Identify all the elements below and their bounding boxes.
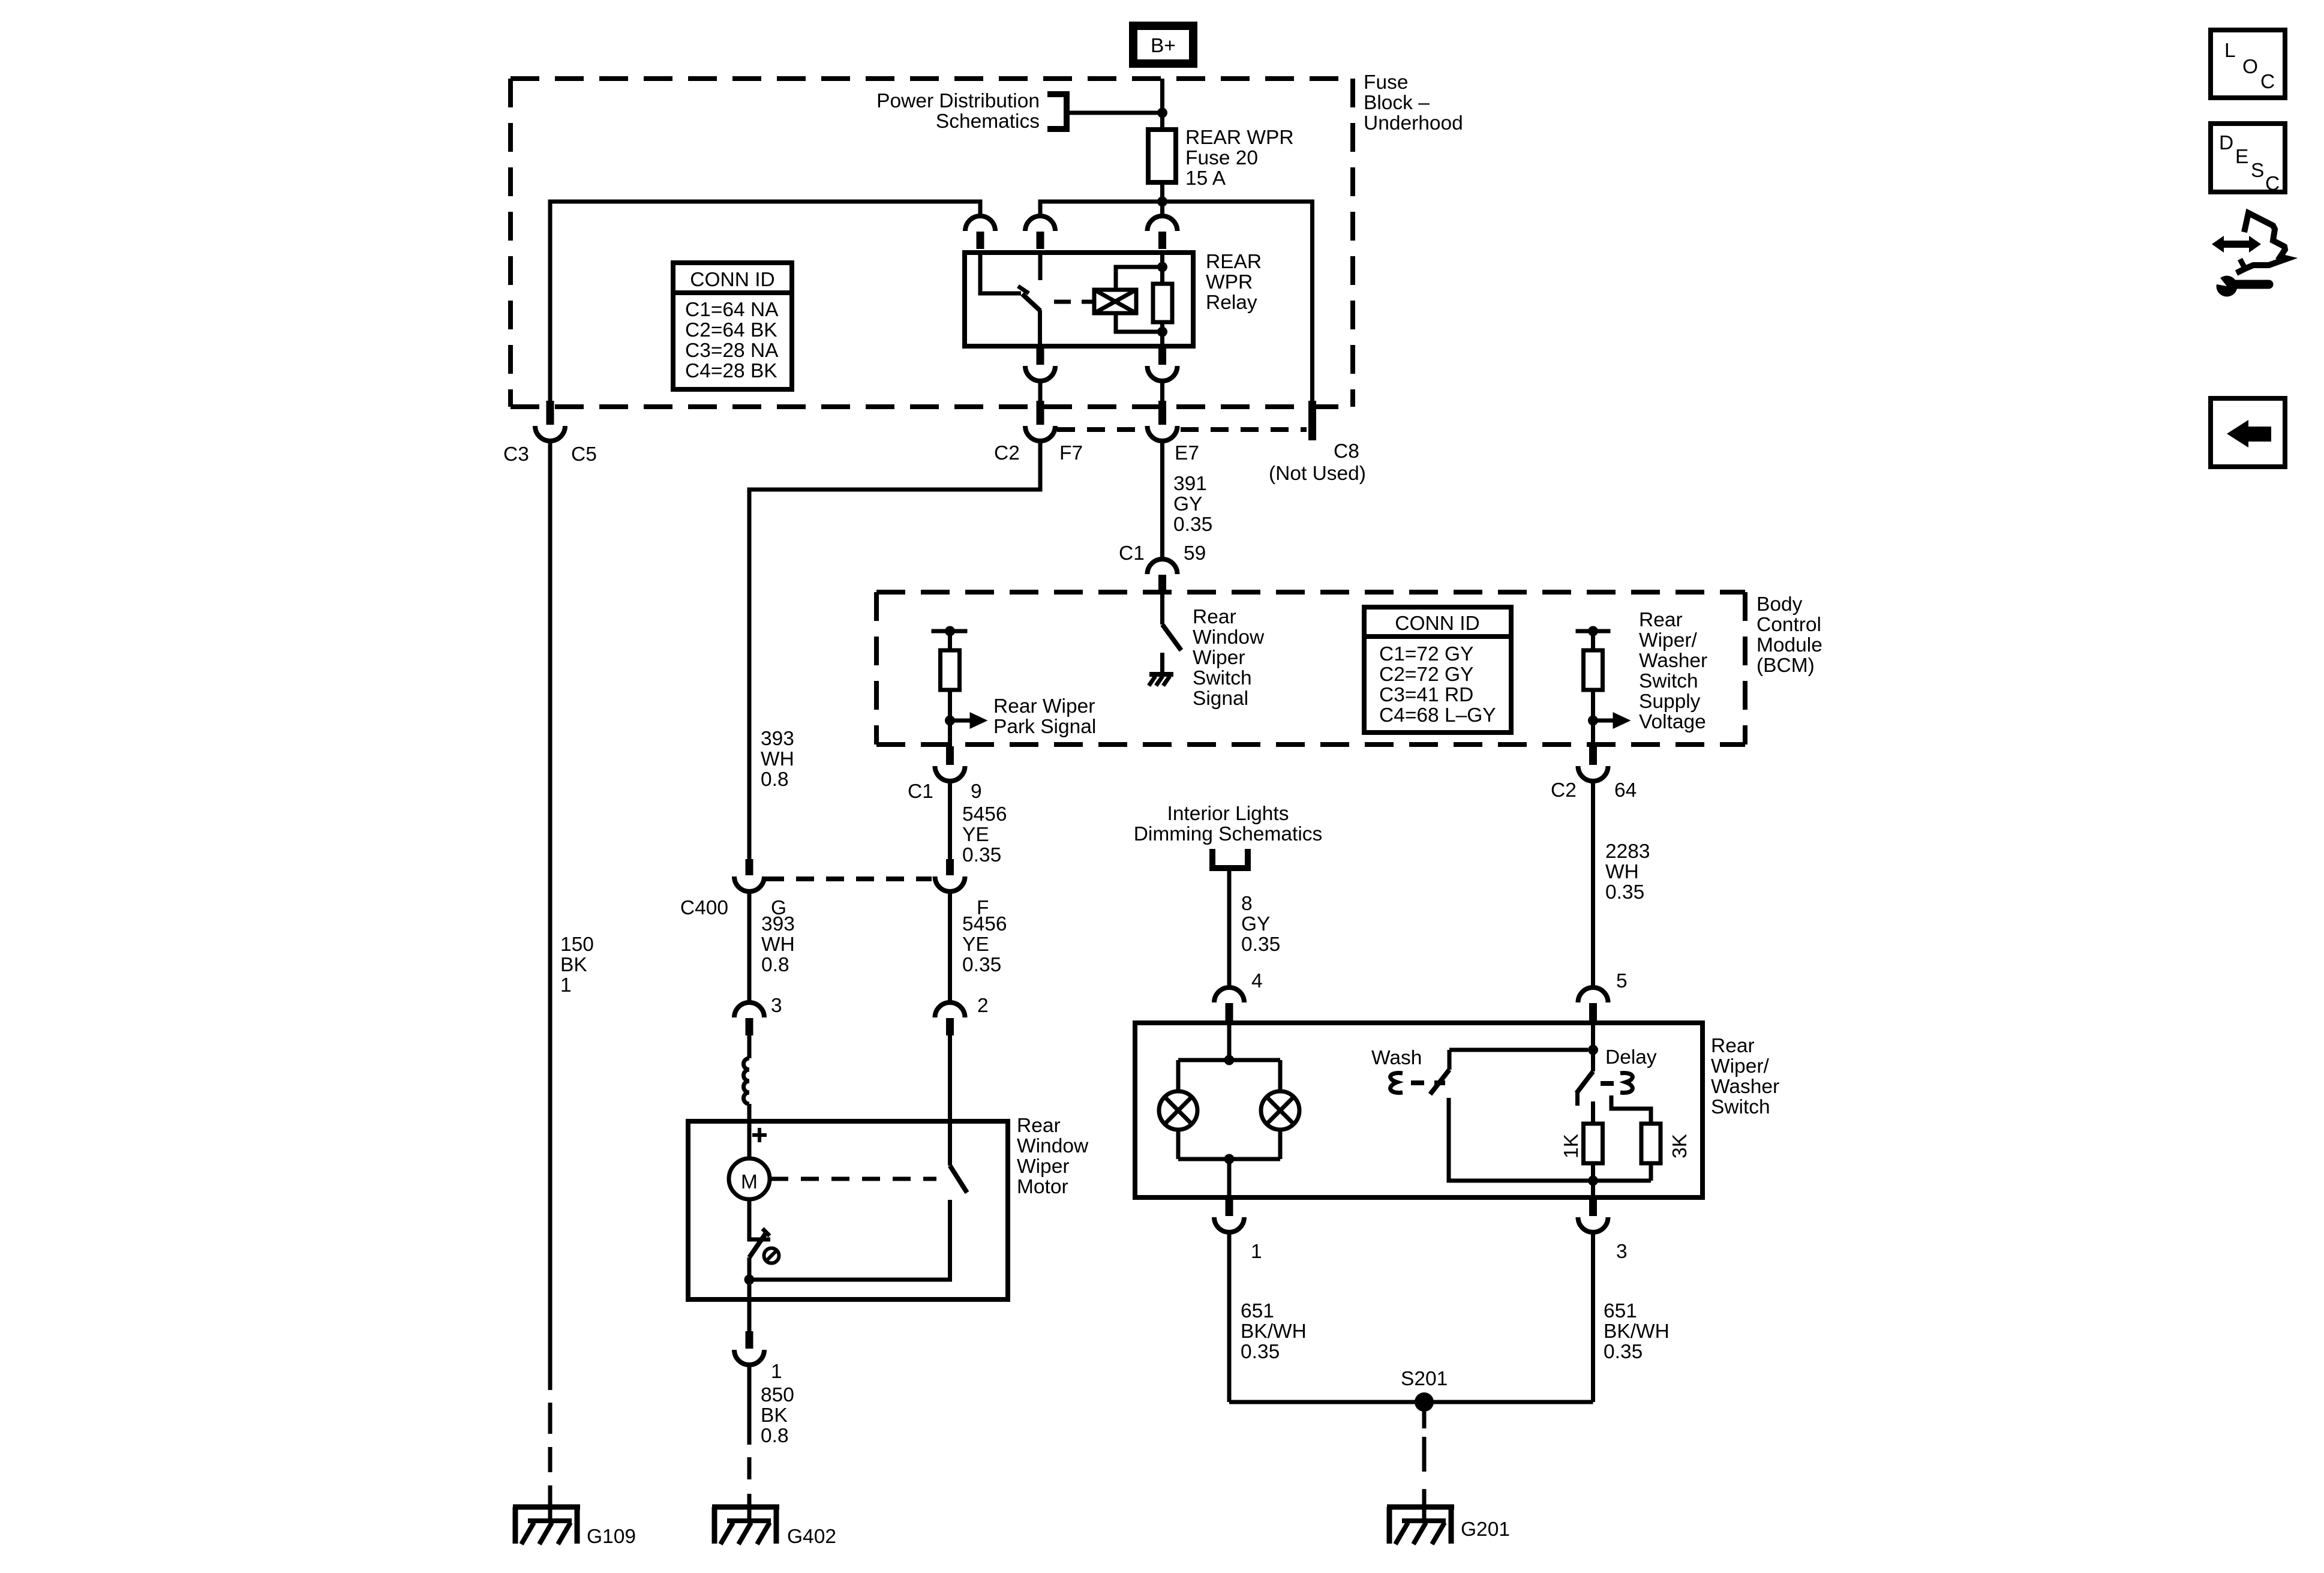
svg-text:1K: 1K (1560, 1134, 1583, 1158)
svg-text:Switch: Switch (1711, 1096, 1770, 1118)
label Rear Wiper Washer Switch Supply Voltage (1639, 609, 1707, 733)
resistor supply voltage (1584, 650, 1603, 690)
svg-text:E: E (2235, 146, 2248, 168)
svg-text:GY: GY (1173, 493, 1202, 515)
table CONN ID BCM (1364, 607, 1511, 733)
resistor 3K (1641, 1124, 1661, 1163)
node wash bar junction (1588, 1045, 1598, 1055)
svg-text:0.35: 0.35 (1605, 881, 1644, 903)
svg-text:393: 393 (761, 728, 794, 750)
svg-text:Voltage: Voltage (1639, 711, 1706, 733)
wire dashed to G402 (747, 1457, 752, 1501)
svg-text:CONN ID: CONN ID (690, 269, 774, 291)
delay switch blade (1577, 1071, 1593, 1106)
svg-text:850: 850 (761, 1384, 794, 1406)
svg-text:0.35: 0.35 (1241, 933, 1280, 956)
ground G109 (513, 1500, 580, 1544)
label Rear Window Wiper Motor (1017, 1115, 1089, 1198)
label C1 (1119, 542, 1145, 565)
thermal protector symbol (764, 1248, 779, 1263)
wire lamp bottom bar (1178, 1157, 1280, 1161)
svg-text:M: M (741, 1171, 758, 1193)
svg-text:S201: S201 (1401, 1368, 1448, 1390)
battery feed B+ power symbol (1133, 26, 1193, 64)
wire fuse to bus (1160, 182, 1164, 202)
connector C400 G (734, 859, 764, 891)
svg-text:Washer: Washer (1711, 1076, 1779, 1098)
label 2 (977, 995, 989, 1017)
label C5 (571, 443, 597, 466)
BCM dashed box (876, 592, 1745, 745)
connector switch pin 4 (1214, 987, 1244, 1020)
svg-text:59: 59 (1184, 542, 1206, 565)
wire delay stem (1591, 1050, 1595, 1071)
label 1K (1560, 1134, 1583, 1158)
wash blade tick (1434, 1080, 1445, 1085)
svg-text:Control: Control (1756, 614, 1821, 636)
node park signal bar junction (945, 626, 955, 637)
relay coil with link stub (1085, 290, 1136, 313)
svg-text:C1: C1 (908, 781, 933, 803)
svg-text:393: 393 (761, 913, 795, 935)
svg-text:G109: G109 (587, 1526, 636, 1548)
wire pin4 to lamp bar (1227, 1023, 1232, 1060)
wire park switch contact (749, 1200, 950, 1280)
wire junction to relay pin 3 (1160, 202, 1164, 216)
label F (977, 897, 989, 919)
connector motor pin 1 (734, 1331, 764, 1365)
label 393 WH 0.8 lower (761, 913, 795, 976)
label REAR WPR Fuse 20 15 A (1185, 127, 1294, 190)
park switch blade (950, 1166, 968, 1193)
icon wrench (2210, 271, 2269, 297)
svg-text:L: L (2224, 40, 2236, 62)
svg-text:C400: C400 (680, 897, 728, 919)
wire park signal top bar (932, 629, 968, 634)
wire pin3 to inductor (747, 1034, 752, 1058)
svg-text:C5: C5 (571, 443, 597, 466)
svg-text:Relay: Relay (1206, 292, 1257, 314)
svg-text:(Not Used): (Not Used) (1269, 463, 1366, 485)
wire coil top parallel branch (1116, 267, 1163, 290)
svg-text:8: 8 (1241, 893, 1253, 915)
connector C1 9 BCM bottom (935, 746, 965, 781)
connector C400 F (935, 859, 965, 891)
arrow rear wiper park signal (950, 712, 988, 729)
svg-text:0.35: 0.35 (1241, 1341, 1280, 1363)
svg-text:Supply: Supply (1639, 691, 1701, 713)
svg-text:Park Signal: Park Signal (993, 716, 1096, 738)
inductor motor winding (744, 1058, 750, 1104)
label Rear Wiper Washer Switch (1711, 1035, 1779, 1118)
svg-text:REAR: REAR (1206, 251, 1262, 273)
label 393 WH 0.8 upper (761, 728, 794, 791)
svg-text:Rear: Rear (1639, 609, 1683, 631)
svg-text:C4=28 BK: C4=28 BK (685, 360, 777, 382)
svg-text:651: 651 (1604, 1300, 1637, 1322)
svg-text:Wash: Wash (1371, 1047, 1422, 1069)
relay center wire (1160, 253, 1164, 346)
thermal switch blade (749, 1233, 766, 1257)
svg-text:3: 3 (771, 995, 782, 1017)
wire lamp top bar (1178, 1058, 1280, 1062)
label C2 (994, 442, 1020, 464)
svg-text:0.35: 0.35 (1173, 514, 1212, 536)
svg-text:Switch: Switch (1193, 667, 1252, 689)
svg-text:0.35: 0.35 (1604, 1341, 1643, 1363)
node lamp bottom junction (1224, 1154, 1235, 1164)
label G201 (1461, 1518, 1510, 1541)
wire 8 GY interior lights (1227, 868, 1232, 987)
label 8 GY 0.35 (1241, 893, 1280, 956)
wire junction to pin 3 (1591, 1181, 1595, 1197)
svg-text:B+: B+ (1151, 35, 1176, 57)
connector relay pin 1 top (965, 216, 995, 249)
svg-text:1: 1 (771, 1361, 782, 1383)
resistor relay suppression (1153, 284, 1172, 322)
wire 1K bottom (1591, 1163, 1595, 1181)
label Wash (1371, 1047, 1422, 1069)
wire thermal to box bottom (747, 1257, 752, 1299)
delay linkage dash (1601, 1081, 1614, 1086)
wire to internal ground (1160, 653, 1164, 673)
svg-text:3K: 3K (1669, 1134, 1691, 1158)
wash contact curl (1391, 1073, 1403, 1093)
svg-text:D: D (2219, 132, 2233, 154)
wire coil bottom parallel branch (1116, 313, 1163, 332)
icon double arrow (2212, 236, 2261, 253)
label 59 (1184, 542, 1206, 565)
svg-text:C4=68 L–GY: C4=68 L–GY (1379, 704, 1496, 727)
label Body Control Module BCM (1756, 593, 1822, 677)
label F7 (1059, 442, 1083, 464)
icon back arrow box (2211, 398, 2285, 467)
ground G201 (1387, 1500, 1454, 1544)
lamp left illumination (1159, 1091, 1197, 1130)
svg-text:E7: E7 (1175, 442, 1199, 464)
svg-text:GY: GY (1241, 913, 1270, 935)
motor box rear window wiper (688, 1121, 1008, 1299)
resistor park signal pullup (941, 650, 960, 690)
wire C400 to pin 3 (747, 890, 752, 1002)
svg-text:BK/WH: BK/WH (1241, 1320, 1307, 1343)
svg-text:2: 2 (977, 995, 989, 1017)
switch box rear wiper washer (1135, 1023, 1703, 1197)
label 391 GY 0.35 (1173, 473, 1212, 536)
label 3 (771, 995, 782, 1017)
node supply junction (1588, 716, 1598, 726)
fuse REAR WPR Fuse 20 15A (1148, 130, 1176, 182)
svg-text:Fuse: Fuse (1364, 71, 1408, 94)
label C3 (503, 443, 529, 466)
svg-text:3: 3 (1616, 1241, 1628, 1263)
svg-text:1: 1 (560, 974, 572, 996)
ground internal BCM (1149, 674, 1173, 686)
dashed connector row fuse block (1057, 427, 1307, 432)
label 64 (1614, 779, 1637, 801)
connector E7 fuse block (1148, 401, 1178, 441)
svg-text:Signal: Signal (1193, 688, 1248, 710)
relay linkage dashed (1054, 300, 1088, 304)
wire supply top bar (1576, 629, 1611, 634)
label C1 pin9 (908, 781, 933, 803)
wire dashed to G109 (548, 1403, 553, 1501)
wire lamp right branch bottom (1278, 1130, 1283, 1159)
wire lamp left branch bottom (1176, 1130, 1181, 1159)
svg-text:15 A: 15 A (1185, 167, 1226, 190)
label 5456 YE 0.35 lower (962, 913, 1007, 976)
svg-text:C3: C3 (503, 443, 529, 466)
label 5456 YE 0.35 upper (962, 803, 1007, 866)
node junction power distribution tap (1157, 108, 1167, 118)
svg-text:0.8: 0.8 (761, 1425, 789, 1447)
wire wash upper contact (1448, 1050, 1452, 1070)
thermal switch contact stub (749, 1236, 770, 1239)
label 1 motor (771, 1361, 782, 1383)
label Rear Wiper Park Signal (993, 695, 1096, 738)
wire lamp left branch top (1176, 1060, 1181, 1091)
connector relay pin 3 top (1148, 216, 1178, 249)
wire splice bus (1229, 1400, 1593, 1404)
connector motor pin 3 (734, 1002, 764, 1035)
wire power distribution tap (1067, 111, 1163, 115)
svg-text:C2=64 BK: C2=64 BK (685, 319, 777, 341)
svg-text:1: 1 (1251, 1241, 1262, 1263)
wire relay pin5 to fuse block edge (1160, 380, 1164, 401)
wire 393 WH from C2 F7 (749, 440, 1040, 859)
svg-text:0.8: 0.8 (761, 769, 789, 791)
bracket power distribution (1047, 91, 1067, 132)
label 2283 WH 0.35 (1605, 840, 1650, 903)
wire bus left segment C5 to relay pin (550, 202, 980, 401)
svg-text:C3=28 NA: C3=28 NA (685, 340, 779, 362)
arrow supply voltage (1593, 712, 1631, 729)
wire wash lower contact (1449, 1098, 1593, 1181)
label 1 switch (1251, 1241, 1262, 1263)
wire S201 stub (1422, 1402, 1427, 1428)
switch rear window wiper signal blade (1163, 625, 1182, 650)
wire resistor to supply junction (1591, 690, 1595, 721)
node bus junction (1157, 197, 1167, 207)
label 4 (1251, 970, 1263, 992)
svg-text:YE: YE (962, 933, 989, 956)
svg-text:Washer: Washer (1639, 650, 1707, 672)
svg-text:Window: Window (1193, 626, 1265, 649)
svg-text:G402: G402 (787, 1526, 836, 1548)
motor M rear window wiper (729, 1158, 770, 1199)
relay switch blade (1022, 294, 1040, 346)
wire junction to C1 9 (948, 721, 952, 746)
connector switch pin 3 (1578, 1197, 1608, 1232)
svg-text:Underhood: Underhood (1364, 112, 1463, 134)
svg-text:Interior Lights: Interior Lights (1167, 803, 1289, 825)
svg-text:5456: 5456 (962, 913, 1007, 935)
label 9 (971, 781, 982, 803)
label 651 BK WH 0.35 left (1241, 1300, 1307, 1363)
svg-text:Rear: Rear (1711, 1035, 1755, 1057)
svg-text:391: 391 (1173, 473, 1207, 495)
svg-text:Dimming Schematics: Dimming Schematics (1134, 823, 1323, 845)
wire C400 F to pin 2 (948, 890, 952, 1002)
wire 391 GY from E7 (1160, 440, 1164, 559)
label C8 Not Used (1269, 440, 1366, 485)
svg-text:Window: Window (1017, 1135, 1089, 1157)
wire dashed to G201 (1422, 1437, 1427, 1501)
svg-text:C: C (2260, 71, 2275, 93)
wire pin2 into motor box (948, 1034, 952, 1166)
label C400 (680, 897, 728, 919)
wash switch blade (1430, 1070, 1449, 1094)
svg-text:C1=64 NA: C1=64 NA (685, 299, 779, 321)
fuse block underhood dashed box (511, 79, 1353, 407)
svg-text:0.35: 0.35 (962, 954, 1001, 976)
wire 3K branch top (1611, 1095, 1651, 1124)
resistor 1K (1584, 1124, 1603, 1163)
svg-text:C2: C2 (994, 442, 1020, 464)
delay contact curl (1620, 1073, 1632, 1093)
svg-text:Block –: Block – (1364, 92, 1430, 114)
label Rear Window Wiper Switch Signal (1193, 606, 1265, 710)
svg-text:C1=72 GY: C1=72 GY (1379, 643, 1473, 665)
svg-text:REAR WPR: REAR WPR (1185, 127, 1294, 149)
svg-text:Wiper/: Wiper/ (1639, 629, 1697, 652)
node supply bar junction (1588, 626, 1598, 637)
label 3K (1669, 1134, 1691, 1158)
relay contact tick (1018, 286, 1029, 293)
table CONN ID fuse block (673, 263, 792, 389)
wire 651 right (1591, 1232, 1595, 1402)
svg-text:F7: F7 (1059, 442, 1083, 464)
svg-text:C: C (2265, 173, 2280, 195)
wire motor to thermal switch (747, 1199, 752, 1238)
wire bar to resistor supply (1591, 631, 1595, 650)
label 3 switch (1616, 1241, 1628, 1263)
connector relay pin 4 bottom (1025, 346, 1055, 381)
label 651 BK WH 0.35 right (1604, 1300, 1670, 1363)
relay common pin stub (1038, 253, 1043, 280)
svg-text:4: 4 (1251, 970, 1263, 992)
svg-text:9: 9 (971, 781, 982, 803)
svg-text:Fuse 20: Fuse 20 (1185, 147, 1258, 169)
icon DESC box (2211, 124, 2285, 195)
svg-text:(BCM): (BCM) (1756, 655, 1815, 677)
svg-text:BK: BK (560, 954, 587, 976)
wire delay to 1K (1591, 1101, 1595, 1124)
label G402 (787, 1526, 836, 1548)
svg-text:Wiper: Wiper (1017, 1155, 1069, 1178)
node coil top junction (1157, 262, 1167, 272)
svg-text:C3=41 RD: C3=41 RD (1379, 684, 1473, 706)
wire lamp right branch top (1278, 1060, 1283, 1091)
connector relay pin 5 bottom (1148, 346, 1178, 381)
wire inductor to motor box (747, 1104, 752, 1121)
wire 3K bottom (1593, 1163, 1652, 1181)
polarity plus sign (752, 1128, 767, 1142)
thermal blade tick (762, 1229, 770, 1236)
label 5 (1616, 970, 1628, 992)
svg-text:WH: WH (1605, 861, 1639, 883)
svg-text:CONN ID: CONN ID (1395, 613, 1479, 635)
svg-text:2283: 2283 (1605, 840, 1650, 863)
wire 5456 YE from C1 9 (948, 781, 952, 859)
node lamp top junction (1224, 1055, 1235, 1065)
label Delay (1605, 1046, 1657, 1068)
wire 850 BK (747, 1364, 752, 1445)
wire bar to resistor (948, 631, 952, 650)
wire wash top bar (1449, 1048, 1588, 1052)
wire resistor to arrow junction (948, 690, 952, 721)
wire bus right segment relay to C8 (1040, 202, 1313, 401)
icon LOC box (2211, 30, 2285, 98)
svg-text:WH: WH (761, 933, 795, 956)
svg-text:Delay: Delay (1605, 1046, 1657, 1068)
label 850 BK 0.8 (761, 1384, 794, 1447)
label E7 (1175, 442, 1199, 464)
svg-text:150: 150 (560, 933, 594, 956)
pin C8 not used (1308, 401, 1316, 440)
node motor bottom junction (744, 1275, 755, 1285)
dashed connector row C400 (766, 876, 932, 881)
node coil bottom junction (1157, 327, 1167, 337)
wire BCM switch signal (1160, 592, 1164, 625)
connector switch pin 5 (1578, 987, 1608, 1020)
connector switch pin 1 (1214, 1197, 1244, 1232)
wire 150 BK from C5 (548, 440, 553, 1390)
wash linkage dash (1411, 1080, 1424, 1085)
wire B+ to fuse (1160, 79, 1164, 130)
svg-text:O: O (2242, 56, 2258, 78)
ground G402 (712, 1500, 779, 1544)
svg-text:C8: C8 (1334, 440, 1359, 463)
svg-text:651: 651 (1241, 1300, 1274, 1322)
svg-text:Rear Wiper: Rear Wiper (993, 695, 1095, 718)
svg-text:5: 5 (1616, 970, 1628, 992)
label G109 (587, 1526, 636, 1548)
svg-text:Schematics: Schematics (936, 110, 1040, 133)
svg-text:WH: WH (761, 748, 794, 770)
svg-text:WPR: WPR (1206, 271, 1253, 293)
connector C2 F7 fuse block (1025, 401, 1055, 441)
svg-text:64: 64 (1614, 779, 1637, 801)
bracket interior lights (1212, 849, 1248, 868)
svg-text:Rear: Rear (1193, 606, 1236, 628)
svg-text:Rear: Rear (1017, 1115, 1061, 1137)
svg-text:5456: 5456 (962, 803, 1007, 825)
wire junction to C2 64 (1591, 721, 1595, 746)
lamp right illumination (1261, 1091, 1299, 1130)
label 150 BK 1 (560, 933, 594, 996)
svg-text:C2=72 GY: C2=72 GY (1379, 664, 1473, 686)
label G (771, 897, 786, 919)
splice S201 (1415, 1392, 1434, 1412)
label Fuse Block - Underhood (1364, 71, 1463, 134)
svg-text:YE: YE (962, 824, 989, 846)
connector motor pin 2 (935, 1002, 965, 1035)
svg-text:S: S (2251, 160, 2264, 182)
svg-text:Module: Module (1756, 634, 1822, 656)
svg-text:Motor: Motor (1017, 1176, 1068, 1198)
label Power Distribution Schematics (876, 90, 1040, 133)
node resistor bottom junction (1588, 1176, 1598, 1186)
icon schematic outline (2236, 213, 2287, 273)
label REAR WPR Relay (1206, 251, 1262, 314)
connector C5 fuse block (535, 401, 565, 441)
svg-text:C2: C2 (1551, 779, 1577, 801)
wire 651 left (1227, 1232, 1232, 1402)
svg-text:Switch: Switch (1639, 670, 1698, 692)
svg-text:C1: C1 (1119, 542, 1145, 565)
svg-text:0.35: 0.35 (962, 844, 1001, 866)
